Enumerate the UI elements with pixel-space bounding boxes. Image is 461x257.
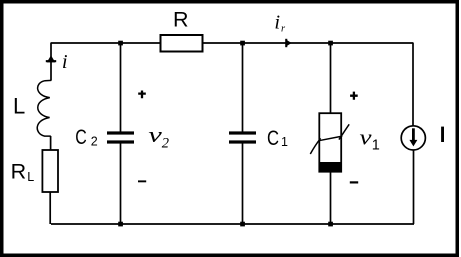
tunnel diode curve	[310, 124, 349, 154]
arrow current ir (right)	[285, 39, 287, 47]
wire C1 lower	[242, 144, 244, 225]
minus v2	[138, 180, 146, 182]
svg-text:v: v	[148, 122, 162, 147]
svg-text:i: i	[274, 12, 280, 34]
wire right branch lower	[413, 150, 415, 224]
wire top	[51, 42, 413, 44]
svg-text:2: 2	[162, 135, 169, 151]
wire RL to bottom	[49, 192, 51, 224]
node top C1	[240, 41, 245, 46]
capacitor C2	[107, 131, 134, 134]
arrow current i (up)	[46, 60, 56, 62]
wire C2 upper	[120, 43, 122, 132]
resistor RL	[42, 150, 58, 192]
svg-text:1: 1	[281, 135, 288, 149]
svg-text:C: C	[75, 125, 87, 149]
svg-text:1: 1	[372, 138, 380, 154]
node top C2	[118, 41, 123, 46]
wire TD upper	[330, 43, 332, 113]
svg-text:i: i	[62, 51, 68, 73]
plus v2	[138, 91, 146, 99]
node bottom C1	[240, 222, 245, 227]
svg-text:2: 2	[91, 135, 98, 149]
wire C2 lower	[120, 144, 122, 225]
svg-text:L: L	[27, 170, 34, 184]
node top TD	[328, 41, 333, 46]
label I	[441, 127, 444, 142]
tunnel diode fill bar	[319, 162, 343, 172]
svg-text:L: L	[13, 94, 25, 119]
minus v1	[350, 181, 358, 183]
wire right branch upper	[412, 43, 414, 127]
svg-text:R: R	[173, 8, 189, 32]
wire bottom	[51, 223, 414, 225]
node bottom C2	[118, 222, 123, 227]
plus v1	[350, 92, 358, 100]
svg-text:C: C	[267, 126, 279, 150]
node bottom TD	[328, 222, 333, 227]
resistor R	[161, 35, 203, 52]
current source I	[401, 126, 425, 150]
tunnel diode box	[319, 113, 341, 172]
wire left branch upper	[50, 43, 52, 81]
wire coil to RL	[50, 136, 52, 150]
svg-text:v: v	[360, 124, 372, 149]
inductor L	[37, 80, 51, 136]
wire C1 upper	[242, 43, 244, 132]
wire TD lower	[330, 172, 332, 224]
svg-text:R: R	[11, 160, 27, 184]
capacitor C1	[229, 131, 256, 134]
